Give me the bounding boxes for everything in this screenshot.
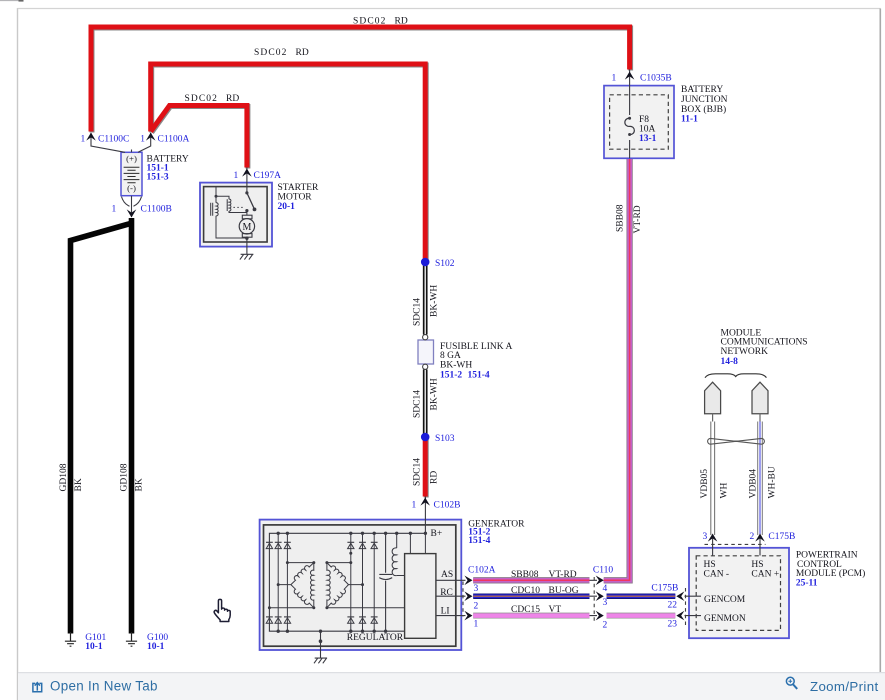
C110 stub lines [590,580,598,615]
svg-text:SDC02: SDC02 [353,17,386,27]
svg-text:VDB05: VDB05 [700,469,710,499]
svg-text:SDC14: SDC14 [413,298,423,326]
connector C175B dashed line top [705,543,766,545]
panel border top [18,8,881,10]
svg-text:14-8: 14-8 [721,357,739,367]
svg-text:GENCOM: GENCOM [704,595,746,605]
wire CDC15 VT C110 to PCM C175B pin 23 [607,613,676,619]
ground below generator [314,658,327,663]
svg-text:C110: C110 [593,566,613,576]
starter switch [247,193,255,210]
wire C102B stem to generator B+ [424,497,426,534]
module communications network brace [705,374,766,378]
svg-text:C1100C: C1100C [98,135,129,145]
network terminal right [752,382,768,414]
svg-text:BK-WH: BK-WH [430,285,440,317]
regulator box [405,554,436,639]
wire GD108 BK battery negative to G100 [129,218,135,634]
wire GD108 BK branch to G101 [71,224,131,634]
generator stator winding left delta [310,563,313,608]
connector C175B dashed line left [685,588,687,626]
svg-text:SDC02: SDC02 [185,94,218,104]
wire CDC15 VT C102A to C110 [473,613,589,619]
connector C110 arrows [596,576,604,586]
wire VDB05 WH PCM HS CAN- to network terminal [710,422,712,536]
connector C175B arrows left [676,591,684,601]
connector C102B arrow [420,498,430,506]
svg-text:C1100B: C1100B [141,205,172,215]
wire starter motor to ground [246,237,248,254]
splice S103 [421,433,430,442]
svg-text:LI: LI [441,606,450,616]
svg-text:C197A: C197A [254,171,282,181]
svg-text:151-3: 151-3 [147,173,169,183]
wire SDC14 BK-WH S102 to fusible link [423,262,425,335]
svg-text:2: 2 [750,532,755,542]
svg-text:13-1: 13-1 [639,134,657,144]
starter solenoid coil 1 [211,203,213,216]
svg-text:2: 2 [474,602,479,612]
svg-text:Open In New Tab: Open In New Tab [50,679,158,694]
svg-text:10A: 10A [639,124,656,134]
bottom toolbar [18,673,885,700]
svg-text:S102: S102 [435,259,455,269]
svg-text:20-1: 20-1 [278,202,296,212]
svg-text:WH-BU: WH-BU [768,466,778,498]
generator field coil [396,533,398,548]
svg-text:RD: RD [226,94,239,104]
svg-text:GD108: GD108 [120,463,130,491]
svg-text:SDC14: SDC14 [413,390,423,418]
svg-text:BK-WH: BK-WH [440,361,472,371]
generator junction dots [277,532,280,535]
svg-text:S103: S103 [435,434,455,444]
svg-text:151-4: 151-4 [468,536,490,546]
svg-text:C175B: C175B [768,532,795,542]
svg-text:3: 3 [474,584,479,594]
svg-text:3: 3 [603,598,608,608]
generator bus bars [269,533,425,631]
wire stem C1035B into BJB fuse [629,70,631,116]
panel border right [879,9,881,674]
svg-text:11-1: 11-1 [681,115,698,125]
svg-text:BK: BK [135,478,145,491]
zoom print icon [786,677,797,689]
svg-text:MODULE (PCM): MODULE (PCM) [796,568,865,579]
powertrain control module PCM box [689,548,789,638]
svg-text:10-1: 10-1 [147,642,165,652]
svg-text:CDC15: CDC15 [511,605,540,615]
svg-text:Zoom/Print: Zoom/Print [810,679,879,694]
svg-text:GENMON: GENMON [704,614,746,624]
wire CDC10 BU-OG C102A to C110 [473,593,589,599]
svg-text:RD: RD [430,471,440,484]
svg-text:4: 4 [603,584,608,594]
starter solenoid wiring [216,187,247,238]
svg-text:BK-WH: BK-WH [430,378,440,410]
generator internal feeds to regulator [410,533,425,553]
battery [121,152,142,195]
svg-text:BATTERY: BATTERY [681,85,723,95]
svg-text:(+): (+) [126,154,137,164]
fusible link A [418,340,434,364]
ground G101 [65,632,76,646]
generator box [260,520,462,650]
svg-text:CAN -: CAN - [704,569,730,579]
generator rectifier diodes top row [266,543,272,548]
svg-text:CDC10: CDC10 [511,586,540,596]
svg-text:3: 3 [703,532,708,542]
svg-text:(-): (-) [127,183,136,193]
wire SDC02 RD battery C1100C to BJB C1035B [92,28,631,133]
svg-text:M: M [242,222,251,233]
svg-text:23: 23 [668,619,678,629]
wire SDC02 RD C1100A to starter C197A [152,107,248,169]
svg-text:NETWORK: NETWORK [721,347,769,357]
svg-text:B+: B+ [431,529,443,539]
splice S102 [421,258,430,267]
generator stator winding right delta [327,563,330,608]
svg-text:1: 1 [612,74,617,84]
svg-text:VDB04: VDB04 [749,469,759,499]
connector C110 dashed line [593,577,595,622]
svg-text:25-11: 25-11 [796,579,818,589]
connector C1100A arrow [146,133,156,141]
wire VDB04 WH-BU PCM HS CAN+ to network terminal [757,422,759,536]
svg-text:22: 22 [668,600,678,610]
wire SDC02 RD C1100A to splice S102 [152,65,427,261]
svg-text:RD: RD [395,17,408,27]
mouse hand cursor [214,599,230,621]
starter solenoid actuating dashes [234,206,246,208]
svg-text:1: 1 [140,135,145,145]
PCM GENCOM GENMON stubs [685,596,702,615]
connector C175B arrows top [708,534,718,542]
svg-text:151-4: 151-4 [468,370,490,380]
wire SBB08 VT-RD generator AS C102A to C110 [473,577,589,583]
fuse F8 element [625,118,634,134]
svg-text:BU-OG: BU-OG [549,586,579,596]
network terminal left [705,382,721,414]
generator capacitor [379,533,392,631]
svg-text:C1100A: C1100A [158,135,190,145]
connector C197A arrow [242,169,252,177]
svg-text:1: 1 [112,205,117,215]
svg-text:SBB08: SBB08 [616,204,626,232]
connector C102A arrows [464,576,472,586]
svg-text:SDC02: SDC02 [254,48,287,58]
wire battery feed Y from C1100C/C1100A [91,133,151,152]
wire SDC14 RD splice S103 to generator C102B [424,438,429,498]
svg-text:RD: RD [296,48,309,58]
svg-text:1: 1 [81,135,86,145]
wire battery negative stem to C1100B [131,196,133,217]
svg-text:1: 1 [474,619,479,629]
svg-text:C1035B: C1035B [640,74,672,84]
svg-text:VT: VT [549,605,562,615]
battery junction box BJB [604,86,674,159]
generator output leads AS RC LI [436,580,466,615]
open in new tab icon [33,683,42,692]
ground G100 [126,632,137,646]
svg-text:VT-RD: VT-RD [633,205,643,233]
wire generator to ground [320,631,322,658]
ground below starter motor [240,254,254,259]
svg-text:2: 2 [603,621,608,631]
svg-text:BOX (BJB): BOX (BJB) [681,104,726,115]
wire C197A stem into starter [246,168,248,194]
wire SBB08 VT-RD BJB to C110 pin 4 [604,159,630,580]
connector C1100B arrow [127,209,137,217]
starter motor M [242,215,252,219]
svg-text:WH: WH [719,483,729,499]
svg-text:1: 1 [412,501,417,511]
svg-text:HS: HS [751,560,763,570]
svg-text:1: 1 [234,171,239,181]
svg-text:10-1: 10-1 [85,642,103,652]
svg-text:F8: F8 [639,115,649,125]
svg-text:AS: AS [441,570,453,580]
svg-text:C102A: C102A [468,566,496,576]
svg-text:GD108: GD108 [59,463,69,491]
svg-text:VT-RD: VT-RD [549,570,577,580]
connector C1100C arrow [86,133,96,141]
connector C1035B arrow [625,72,635,80]
wire stem fuse to BJB bottom [629,140,631,158]
svg-text:SBB08: SBB08 [511,570,539,580]
connector C102A dashed line [462,582,464,617]
svg-text:JUNCTION: JUNCTION [681,95,728,105]
svg-text:C175B: C175B [651,583,678,593]
starter motor box [200,183,272,247]
svg-text:CAN +: CAN + [751,569,779,579]
svg-text:REGULATOR: REGULATOR [347,633,404,643]
generator rectifier verticals [277,533,279,631]
PCM pin stems [713,536,760,556]
generator rectifier diodes bottom row [266,618,272,623]
svg-text:C102B: C102B [434,501,461,511]
panel border left [17,8,19,700]
wire SDC14 BK-WH fusible link to S103 [423,370,425,438]
svg-text:HS: HS [704,560,716,570]
svg-text:SDC14: SDC14 [413,458,423,486]
twisted pair symbol [708,438,765,444]
svg-text:RC: RC [440,588,453,598]
svg-text:151-2: 151-2 [440,370,462,380]
generator winding connections [269,563,313,608]
svg-text:BK: BK [74,478,84,491]
wire CDC10 BU-OG C110 to PCM C175B pin 22 [607,593,676,599]
starter solenoid coil 2 [226,199,228,211]
network terminal pin stubs [713,414,760,422]
top edge artifact [0,0,23,2]
